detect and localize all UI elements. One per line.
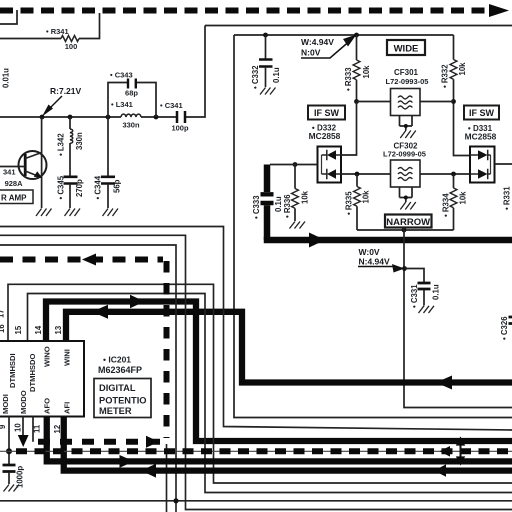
wire inner box top y=35: [234, 34, 454, 36]
svg-text:N:4.94V: N:4.94V: [359, 257, 391, 267]
svg-text:R:7.21V: R:7.21V: [50, 86, 82, 96]
box IF SW (left): [308, 106, 345, 120]
ground (C344): [103, 209, 119, 217]
svg-text:• R335: • R335: [345, 191, 354, 215]
capacitor 1000p: [3, 465, 16, 472]
svg-text:MODI: MODI: [1, 394, 10, 414]
svg-text:METER: METER: [99, 406, 132, 416]
CF301 ground tabs: [400, 116, 413, 131]
svg-text:0.1u: 0.1u: [432, 284, 441, 300]
svg-text:10: 10: [14, 423, 23, 432]
svg-text:W:4.94V: W:4.94V: [301, 37, 334, 47]
svg-text:DTMHSDO: DTMHSDO: [28, 354, 37, 392]
svg-text:• R333: • R333: [344, 67, 353, 91]
svg-text:W:0V: W:0V: [359, 247, 380, 257]
svg-text:MODO: MODO: [19, 390, 28, 414]
svg-text:928A: 928A: [5, 179, 24, 188]
dashed bus left arrow y=259.5: [82, 254, 96, 266]
diode pair D331: [470, 147, 495, 183]
svg-text:MC2858: MC2858: [465, 132, 497, 142]
wire dashed bus to pin11 y=441.8: [36, 439, 160, 445]
svg-text:16: 16: [0, 324, 6, 333]
filter CF302: [391, 160, 421, 187]
thick bus AFI path y=470.6: [64, 417, 512, 471]
node dot C332 tap: [263, 33, 268, 38]
svg-text:0.01u: 0.01u: [2, 68, 11, 88]
inductor L341: [121, 114, 141, 117]
svg-text:AFI: AFI: [63, 402, 72, 414]
wire CF302 right to D331: [420, 173, 470, 175]
ground (1000p): [4, 485, 20, 492]
svg-text:WINI: WINI: [63, 349, 72, 366]
node dot R333 tap: [354, 33, 359, 38]
ground (L342/C345): [65, 209, 81, 217]
capacitor C341: [177, 111, 185, 123]
capacitor C343 parallel loop: [108, 83, 156, 118]
dashed bus right arrow y=441.8: [146, 436, 159, 448]
wire vertical x=234 to bottom bus: [234, 35, 512, 418]
dashed bus y=451.3 baseline: [0, 450, 512, 452]
svg-text:• R332: • R332: [441, 64, 450, 88]
svg-text:15: 15: [14, 325, 23, 334]
svg-text:L72-0993-05: L72-0993-05: [386, 77, 429, 86]
svg-text:• R331: • R331: [503, 186, 512, 210]
ground (C331): [419, 306, 435, 313]
dashed bus y=451.3 dashes: [16, 448, 512, 454]
svg-text:MC2858: MC2858: [309, 131, 341, 141]
transistor Q341: [19, 151, 47, 179]
node junction dots on main line: [40, 115, 45, 120]
capacitor C333 (in thick bus): [261, 194, 274, 203]
ground (Q341 emitter): [36, 209, 52, 217]
wire CF301 right to R332 column: [420, 101, 454, 103]
svg-text:270p: 270p: [75, 179, 84, 197]
svg-text:56p: 56p: [113, 179, 122, 193]
link arrows between buses x=460.5: [460, 442, 462, 460]
svg-text:M62364FP: M62364FP: [98, 365, 142, 375]
capacitor C331: [405, 269, 425, 283]
CF302 ground tabs: [400, 187, 413, 202]
wire P2: [0, 235, 512, 509]
svg-text:CF301: CF301: [394, 68, 419, 77]
svg-text:• C333: • C333: [252, 195, 261, 219]
svg-text:330n: 330n: [75, 132, 84, 150]
wire P3: [0, 245, 176, 512]
svg-text:10k: 10k: [459, 191, 468, 205]
IC U IC201 box: [0, 341, 84, 417]
resistor R336: [293, 162, 298, 167]
svg-text:AFO: AFO: [43, 398, 52, 414]
resistor R333: [356, 35, 358, 60]
wire main IF line y=117: [0, 26, 512, 118]
wire pin15 path L2: [28, 294, 512, 493]
diode pair D332: [318, 147, 342, 183]
wire dashed bus horizontal y=259.5: [0, 257, 163, 263]
ground (C332): [260, 88, 276, 95]
svg-text:R AMP: R AMP: [1, 194, 27, 203]
wire MODI pin down with C 1000p: [8, 417, 10, 465]
svg-text:• L342: • L342: [57, 133, 66, 156]
svg-text:330n: 330n: [122, 121, 140, 130]
svg-text:10k: 10k: [362, 190, 371, 204]
wire NARROW node down x=404: [404, 228, 512, 408]
svg-text:• L341: • L341: [111, 100, 133, 109]
filter CF301: [357, 101, 391, 103]
svg-text:L72-0999-05: L72-0999-05: [383, 150, 426, 159]
svg-text:• R341: • R341: [46, 27, 69, 36]
svg-text:13: 13: [54, 325, 63, 334]
box WIDE: [387, 40, 425, 55]
svg-text:68p: 68p: [125, 89, 138, 98]
svg-text:• C326: • C326: [500, 316, 509, 340]
svg-text:• C345: • C345: [57, 175, 66, 199]
svg-text:9: 9: [0, 424, 7, 429]
wire D332 input from thick bus: [270, 164, 318, 166]
box NARROW: [385, 215, 432, 228]
top bus arrowhead: [489, 4, 509, 17]
dashed bus left arrow: [440, 446, 451, 457]
svg-text:10k: 10k: [458, 62, 467, 76]
svg-text:• C341: • C341: [160, 101, 183, 110]
svg-text:IF SW: IF SW: [314, 108, 340, 118]
wire R341 branch: [0, 13, 100, 39]
thick bus pin13 path y=382.5: [66, 312, 512, 383]
svg-text:WINO: WINO: [43, 346, 52, 367]
svg-text:341: 341: [3, 168, 16, 177]
inductor L342: [69, 117, 71, 177]
resistor R332: [453, 35, 455, 60]
wire top dashed bus: [0, 8, 486, 14]
svg-text:IF SW: IF SW: [469, 108, 495, 118]
svg-text:POTENTIO: POTENTIO: [99, 396, 147, 406]
svg-text:14: 14: [34, 325, 43, 334]
svg-text:100p: 100p: [171, 124, 189, 133]
wire MODO pin down with arrow: [22, 417, 24, 437]
resistor R335: [356, 174, 358, 187]
svg-text:WIDE: WIDE: [394, 44, 419, 55]
thick bus via C333 down to horizontal bus: [264, 165, 271, 193]
svg-text:• C331: • C331: [410, 284, 419, 308]
thick bus AFO path y=461.4: [47, 417, 512, 462]
resistor R341: [61, 36, 79, 42]
svg-text:• R336: • R336: [283, 194, 292, 218]
svg-text:N:0V: N:0V: [301, 48, 321, 58]
wire x=166.5 lower segment: [166, 444, 168, 512]
ground (R336): [290, 222, 306, 229]
svg-text:• R334: • R334: [442, 193, 451, 217]
resistor R334: [453, 174, 455, 188]
thick bus horizontal y=240: [264, 237, 512, 244]
wire D332 pin2 to CF302 input: [341, 173, 391, 175]
label box R AMP: [0, 190, 33, 204]
wire D332 pin1 up to CF301 input: [341, 102, 357, 156]
svg-text:1000p: 1000p: [16, 466, 25, 488]
box DIGITAL POTENTIO METER: [94, 379, 151, 418]
wire dashed bus vertical x=166.5: [164, 261, 170, 438]
svg-text:• C344: • C344: [94, 175, 103, 199]
wire bottom line y=502.8: [0, 500, 512, 502]
wire R335-R334 bottom link y=230: [357, 229, 454, 231]
wire top-left stub box: [0, 10, 17, 24]
capacitor C345: [64, 177, 78, 184]
thick bus pin14 path y=441: [46, 302, 512, 442]
wire pin11 down: [32, 417, 34, 442]
box IF SW (right): [464, 106, 499, 120]
wire pin16 path L1: [8, 284, 512, 483]
wire P1 from IC area to y=426.5 bus: [0, 227, 512, 431]
svg-text:0.1u: 0.1u: [274, 196, 283, 212]
svg-text:• C343: • C343: [110, 71, 133, 80]
svg-text:10k: 10k: [362, 65, 371, 79]
wire D331 output right: [495, 163, 512, 165]
svg-text:10k: 10k: [301, 190, 310, 204]
svg-text:DIGITAL: DIGITAL: [99, 383, 136, 393]
svg-text:NARROW: NARROW: [386, 217, 430, 228]
capacitor C332: [265, 35, 267, 59]
svg-text:DTMHSDI: DTMHSDI: [8, 353, 17, 388]
svg-text:100: 100: [65, 42, 78, 51]
svg-text:0.1u: 0.1u: [272, 67, 281, 83]
svg-text:• IC201: • IC201: [103, 355, 131, 365]
svg-text:• C332: • C332: [251, 65, 260, 89]
svg-text:17: 17: [0, 309, 6, 318]
capacitor C344: [107, 117, 109, 177]
